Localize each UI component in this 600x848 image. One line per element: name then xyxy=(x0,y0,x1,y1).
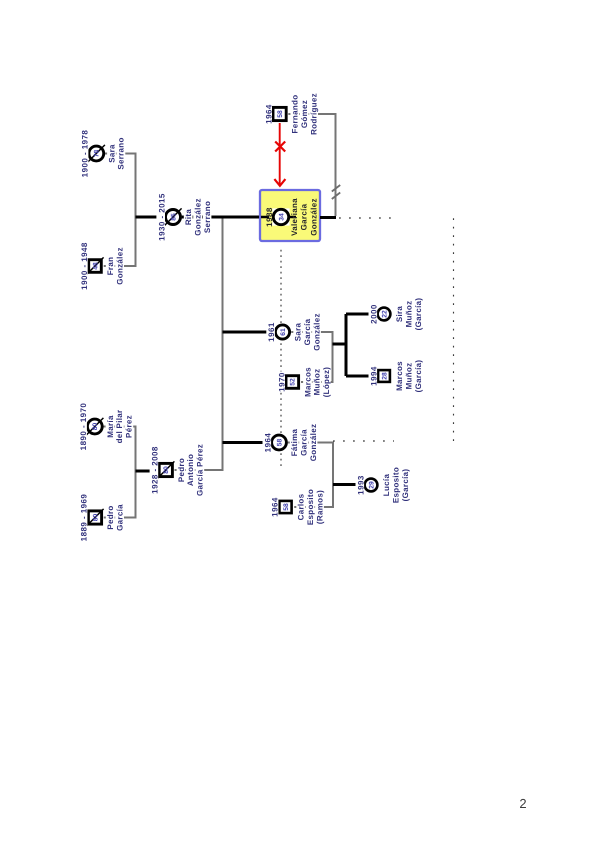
person fran (male, deceased) xyxy=(79,241,124,290)
svg-text:Serrano: Serrano xyxy=(203,201,212,233)
svg-text:Valeriana: Valeriana xyxy=(290,198,299,236)
svg-text:Muñoz: Muñoz xyxy=(404,363,413,390)
person carlos (male) xyxy=(270,489,325,525)
wire descent chain Fran/Sara bus to Rita to Valeriana box xyxy=(136,216,260,219)
person valer (female) xyxy=(265,198,319,236)
svg-text:Lucía: Lucía xyxy=(382,474,391,497)
svg-text:78: 78 xyxy=(94,150,101,158)
svg-text:Rita: Rita xyxy=(184,209,193,226)
svg-text:58: 58 xyxy=(276,439,283,447)
svg-text:Muñoz: Muñoz xyxy=(313,369,322,396)
svg-text:Esposito: Esposito xyxy=(391,467,400,503)
svg-text:Sara: Sara xyxy=(294,322,303,341)
wire descent box-bottom to F6 bus xyxy=(320,216,336,219)
svg-text:22: 22 xyxy=(381,310,388,318)
svg-text:(Ramos): (Ramos) xyxy=(315,490,324,524)
svg-text:1964: 1964 xyxy=(263,433,272,453)
svg-text:González: González xyxy=(115,247,124,285)
svg-text:Antonio: Antonio xyxy=(186,454,195,486)
person saras (female, deceased) xyxy=(80,129,126,178)
svg-text:Sira: Sira xyxy=(395,306,404,323)
person maria (female, deceased) xyxy=(78,402,133,451)
red relationship arrow Fernando to Valeriana with X xyxy=(274,123,285,186)
svg-text:González: González xyxy=(193,198,202,236)
svg-text:Sara: Sara xyxy=(107,144,116,163)
person sira (female) xyxy=(369,298,423,331)
divorce mark double-slash on F6 xyxy=(332,185,340,199)
svg-text:(García): (García) xyxy=(414,360,423,393)
svg-text:García: García xyxy=(299,429,308,456)
person sarag (female) xyxy=(266,313,321,351)
svg-text:Gómez: Gómez xyxy=(300,100,309,128)
wire marriage-line F2 Fran+SaraSerrano xyxy=(102,154,136,267)
svg-text:García: García xyxy=(115,504,124,531)
person pa (male, deceased) xyxy=(150,443,205,496)
svg-text:González: González xyxy=(310,198,319,236)
wire marriage-line F1 Pedro+Maria xyxy=(102,427,136,518)
wire descent to Fatima xyxy=(223,441,273,444)
svg-text:Esposito: Esposito xyxy=(306,489,315,525)
svg-text:29: 29 xyxy=(368,481,375,489)
node highlight-box Valeriana (selected person) xyxy=(260,190,320,241)
svg-text:García: García xyxy=(303,318,312,345)
wire descent to PedroAntonio xyxy=(136,470,160,473)
wire marriage-line F6 Valeriana+Fernando (divorced) xyxy=(287,114,336,216)
svg-text:Carlos: Carlos xyxy=(297,493,306,520)
svg-text:García Pérez: García Pérez xyxy=(196,444,205,496)
svg-text:80: 80 xyxy=(163,466,170,474)
svg-text:85: 85 xyxy=(170,213,177,221)
person fatima (female) xyxy=(263,423,318,461)
svg-text:Fran: Fran xyxy=(106,257,115,276)
svg-text:58: 58 xyxy=(277,110,284,118)
svg-text:Muñoz: Muñoz xyxy=(404,301,413,328)
svg-text:80: 80 xyxy=(92,423,99,431)
wire dashed link D1 (Fatima..Sara..Valeriana box) xyxy=(280,247,282,466)
svg-text:Fernando: Fernando xyxy=(291,95,300,134)
svg-text:del Pilar: del Pilar xyxy=(115,410,124,444)
person marcosl (male) xyxy=(276,366,331,398)
svg-text:1900 - 1948: 1900 - 1948 xyxy=(80,242,89,290)
svg-text:80: 80 xyxy=(92,514,99,522)
svg-text:1994: 1994 xyxy=(369,366,378,386)
svg-text:1900 - 1978: 1900 - 1978 xyxy=(81,130,90,178)
svg-text:1889 - 1969: 1889 - 1969 xyxy=(80,494,89,542)
wire descent to Lucia xyxy=(333,483,365,486)
svg-text:María: María xyxy=(106,415,115,438)
svg-text:1964: 1964 xyxy=(264,104,273,124)
wire dashed link D4 outer xyxy=(453,218,455,441)
wire dashed link D2 below Valeriana family xyxy=(339,217,394,219)
person fern (male) xyxy=(263,93,318,135)
svg-text:(García): (García) xyxy=(401,469,410,502)
svg-text:2: 2 xyxy=(519,796,526,811)
svg-text:Fátima: Fátima xyxy=(290,428,299,456)
wire marriage-line F3 PedroAntonio+Rita xyxy=(173,217,223,470)
svg-text:1928 - 2008: 1928 - 2008 xyxy=(151,446,160,494)
svg-text:(López): (López) xyxy=(322,367,331,398)
svg-text:28: 28 xyxy=(381,372,388,380)
wire marriage-line F4 Carlos+Fatima xyxy=(286,443,333,508)
svg-text:González: González xyxy=(312,313,321,351)
svg-text:Marcos: Marcos xyxy=(303,367,312,397)
person rita (female, deceased) xyxy=(156,192,211,241)
svg-text:Pedro: Pedro xyxy=(177,458,186,482)
svg-text:1961: 1961 xyxy=(267,322,276,342)
wire marriage-line F5 MarcosLopez+SaraGarcia xyxy=(290,332,333,382)
svg-text:1993: 1993 xyxy=(356,475,365,495)
wire descent into box to Valeriana icon xyxy=(261,216,296,219)
svg-text:52: 52 xyxy=(290,378,297,386)
svg-text:1970: 1970 xyxy=(277,372,286,392)
svg-text:61: 61 xyxy=(280,328,287,336)
svg-text:Pérez: Pérez xyxy=(125,415,134,438)
svg-text:34: 34 xyxy=(278,213,285,221)
svg-text:García: García xyxy=(300,203,309,230)
svg-text:Pedro: Pedro xyxy=(106,505,115,529)
wire descent rail to Sira and MarcosJr xyxy=(333,343,347,346)
svg-text:48: 48 xyxy=(92,262,99,270)
svg-text:1930 - 2015: 1930 - 2015 xyxy=(157,193,166,241)
person pedro (male, deceased) xyxy=(79,493,125,542)
svg-text:58: 58 xyxy=(283,503,290,511)
wire dashed link D3 below Fatima family xyxy=(333,440,394,442)
svg-text:2000: 2000 xyxy=(369,304,378,324)
svg-text:1890 - 1970: 1890 - 1970 xyxy=(79,403,88,451)
svg-text:1988: 1988 xyxy=(265,207,274,227)
svg-text:(García): (García) xyxy=(414,298,423,331)
svg-text:Rodríguez: Rodríguez xyxy=(309,93,318,135)
wire descent to SaraGarcia xyxy=(223,331,276,334)
person lucia (female) xyxy=(356,467,410,503)
svg-text:Marcos: Marcos xyxy=(395,361,404,391)
person marcosj (male) xyxy=(369,360,423,393)
svg-text:González: González xyxy=(309,424,318,462)
svg-text:1964: 1964 xyxy=(271,497,280,517)
svg-text:Serrano: Serrano xyxy=(117,137,126,169)
